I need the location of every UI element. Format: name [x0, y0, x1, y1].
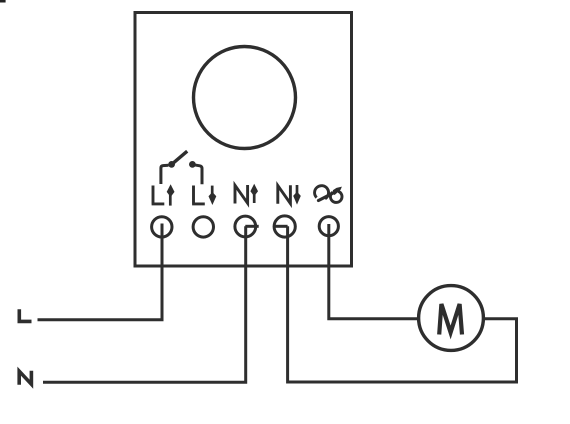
terminal label L (switched live out) with down arrow	[192, 186, 216, 206]
terminal 5 (load)	[319, 217, 338, 236]
terminal label N (neutral out) with down arrow	[278, 185, 301, 205]
terminal 2 (L out, unused)	[193, 217, 213, 237]
load output symbol (crossed loops with arrow)	[315, 186, 342, 203]
terminal label N (neutral in) with up arrow	[235, 184, 258, 204]
terminal 3 (N in)	[235, 216, 256, 237]
node label N (mains neutral)	[19, 371, 31, 385]
wire: mains N to terminal 3 (with clamp tab)	[43, 226, 259, 382]
motor M	[419, 286, 484, 351]
terminal 4 (N out)	[274, 216, 295, 237]
terminal 1 (L in)	[152, 217, 172, 237]
wire: mains L to terminal 1	[38, 224, 163, 320]
wire: terminal 4 (N out) to motor return (with clamp tab)	[274, 226, 517, 382]
wire: terminal 5 (load) to motor	[329, 224, 419, 319]
terminal label L (switched live in) with up arrow	[152, 184, 175, 205]
sensor lens circle	[194, 47, 296, 149]
internal switch S1	[161, 151, 202, 184]
enclosure (sensor unit body)	[135, 13, 352, 267]
node label L (mains live)	[18, 309, 32, 321]
